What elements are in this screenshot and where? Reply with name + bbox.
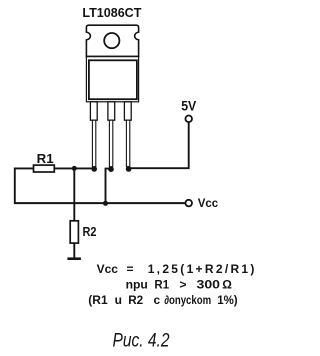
wire: IN pin to 5V terminal [129, 122, 189, 168]
svg-text:npu R1 > 300 Ω: npu R1 > 300 Ω [126, 278, 233, 292]
wire: bottom Vcc rail [14, 202, 186, 204]
svg-text:Vcc = 1,25(1+R2/R1): Vcc = 1,25(1+R2/R1) [97, 262, 255, 276]
resistor R2 [70, 221, 78, 243]
pin 1 (ADJ) narrow lead [92, 120, 95, 167]
terminal 5V [185, 116, 192, 123]
node: junction dot ADJ/R1/R2 [72, 166, 77, 171]
resistor R1 [34, 165, 55, 172]
svg-text:Vcc: Vcc [198, 196, 219, 210]
svg-text:5V: 5V [181, 99, 196, 114]
wire: top net from left loop to ADJ pin [15, 167, 94, 169]
regulator U1 body outer silhouette [86, 56, 138, 101]
ground [67, 257, 81, 260]
node: junction dot at pin 1 end [91, 166, 97, 172]
pin 1 (ADJ) wide lead [90, 102, 97, 120]
regulator U1 TO-220 tab with mounting hole [86, 25, 138, 56]
regulator U1 plastic body front face [89, 60, 137, 99]
pin 3 (IN) narrow lead [126, 120, 129, 167]
wire: ADJ node down to R2 [73, 168, 75, 220]
pin 2 (OUT) wide lead [108, 102, 115, 120]
svg-text:LT1086CT: LT1086CT [82, 5, 141, 20]
node: junction dot at pin 3 end [126, 166, 132, 172]
svg-text:R1: R1 [37, 151, 54, 166]
wire: left vertical (R1 left to Vcc rail) [14, 168, 16, 204]
svg-text:R2: R2 [83, 224, 97, 239]
svg-text:Puc. 4.2: Puc. 4.2 [113, 331, 170, 352]
node: junction dot at pin 2 end [108, 166, 114, 172]
wire: R2 bottom to ground [73, 243, 75, 258]
pin 2 (OUT) narrow lead [109, 120, 112, 167]
pin 3 (IN) wide lead [124, 102, 131, 120]
wire: OUT pin jog down to Vcc rail [106, 169, 112, 204]
node: junction dot OUT wire on Vcc rail [103, 201, 108, 206]
terminal Vcc [185, 200, 192, 207]
